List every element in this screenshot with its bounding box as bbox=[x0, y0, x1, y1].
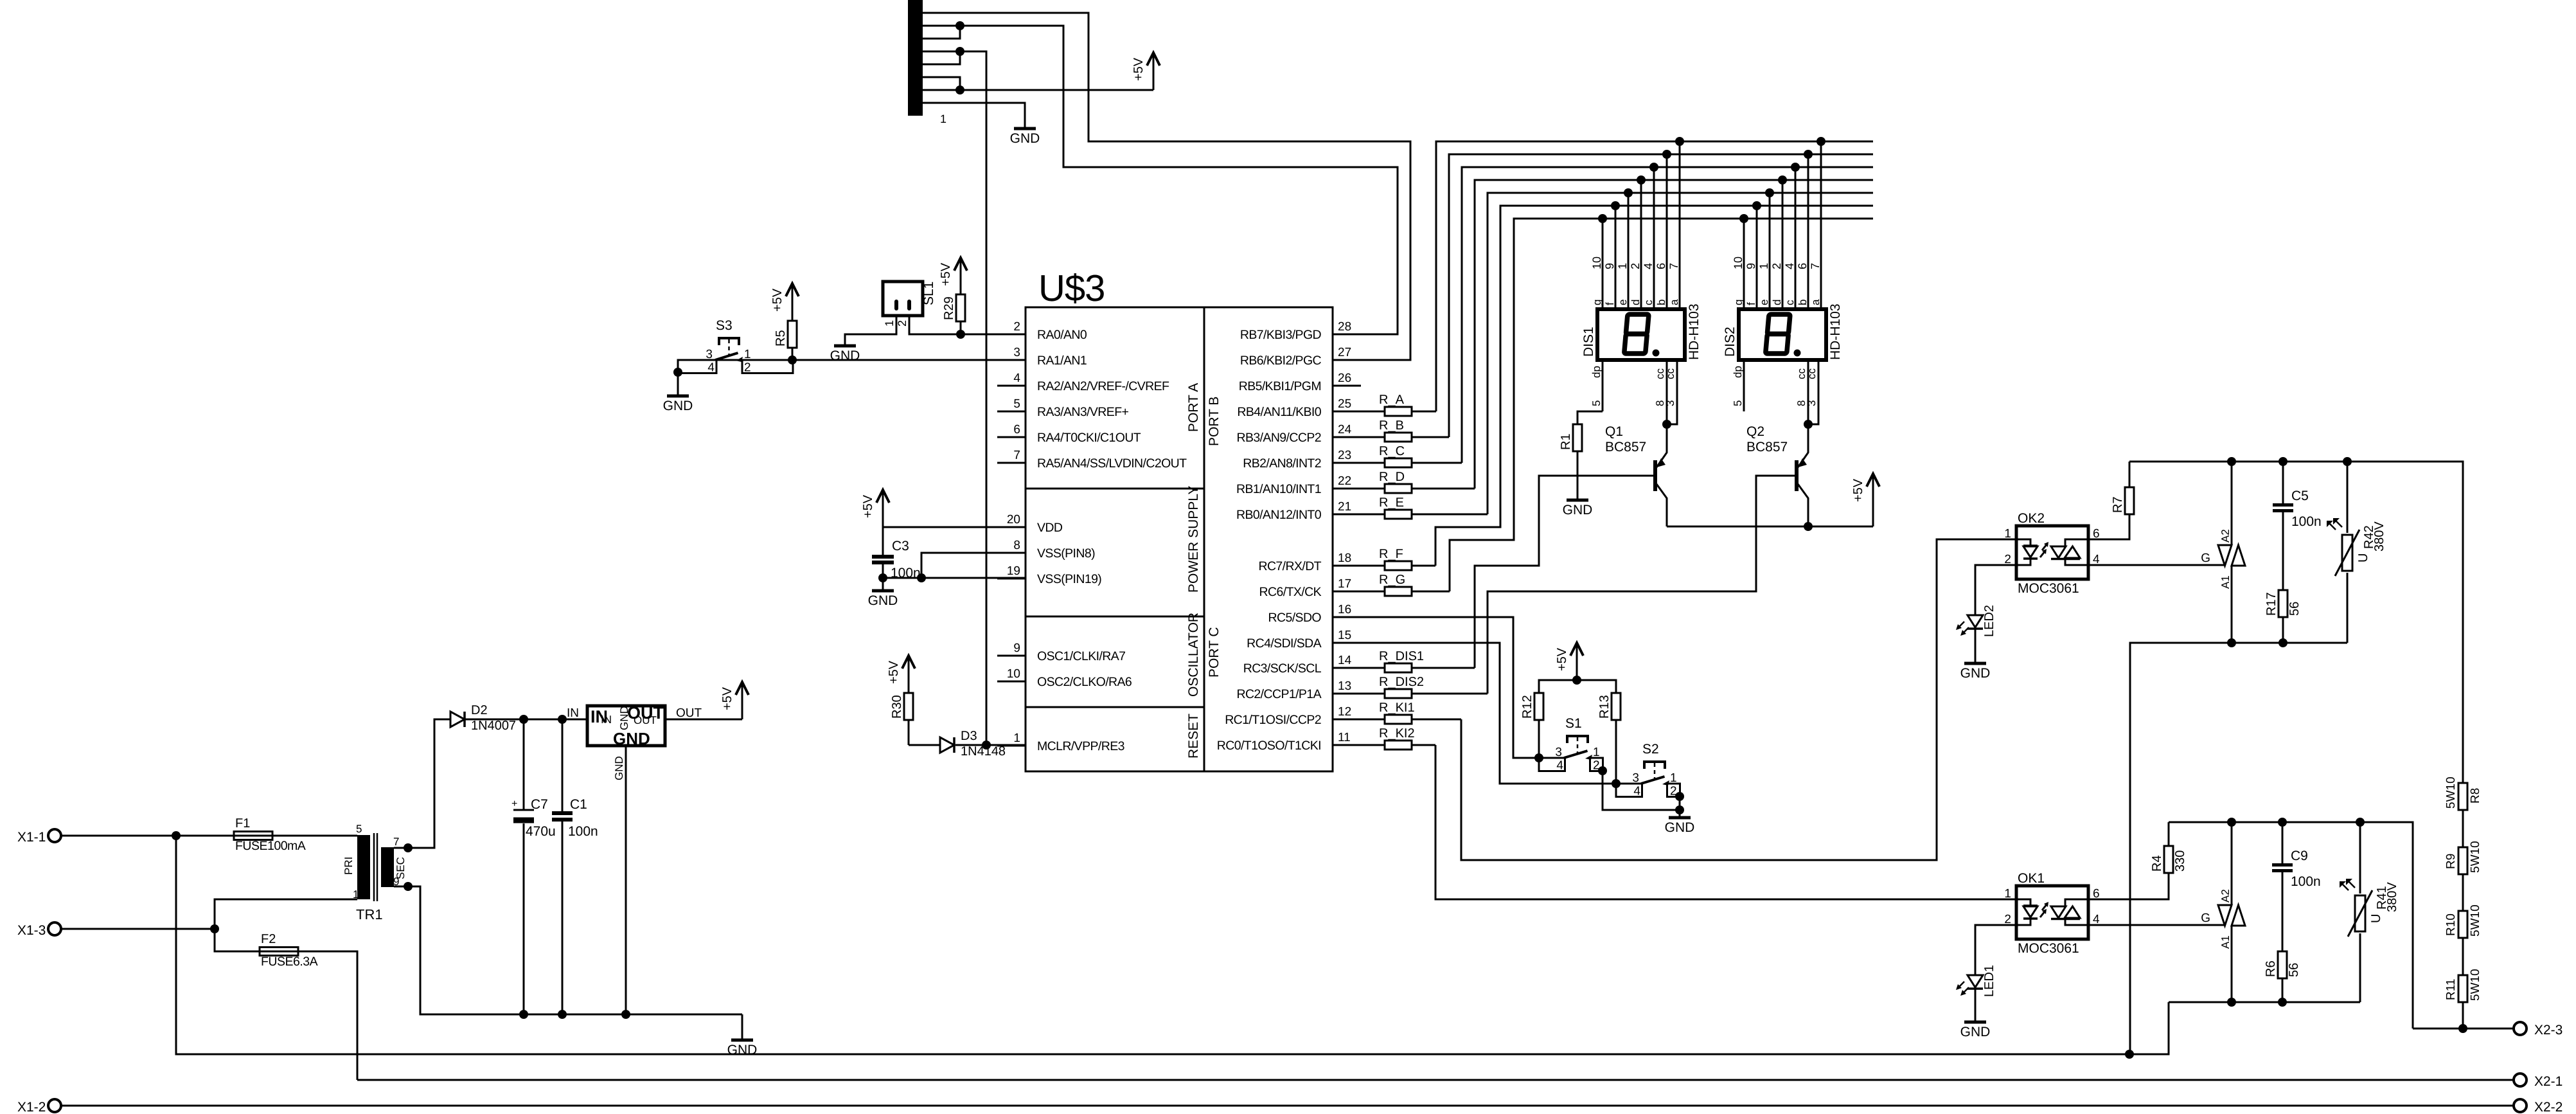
U$3 pin 10 OSC2/CLKO/RA6 bbox=[997, 681, 1026, 683]
svg-text:2: 2 bbox=[896, 320, 909, 327]
terminal X2-3 bbox=[2514, 1022, 2527, 1035]
svg-text:6: 6 bbox=[1655, 263, 1667, 269]
svg-text:+5V: +5V bbox=[1851, 478, 1865, 502]
svg-text:5: 5 bbox=[356, 823, 362, 835]
junction R29/SL1/RA0 bbox=[956, 330, 965, 339]
svg-text:100n: 100n bbox=[2291, 514, 2322, 529]
svg-text:GND: GND bbox=[613, 729, 650, 748]
wire X1-3 to junction bbox=[61, 928, 215, 930]
svg-text:SL1: SL1 bbox=[921, 282, 936, 305]
svg-text:GND: GND bbox=[1010, 131, 1040, 146]
svg-text:RA3/AN3/VREF+: RA3/AN3/VREF+ bbox=[1037, 405, 1129, 419]
wire SV1 pin4 to MCLR net bbox=[923, 51, 986, 745]
wire SV1 pin5 jog bbox=[923, 51, 960, 64]
wire S3 to ground bbox=[677, 360, 679, 396]
svg-text:OK1: OK1 bbox=[2018, 871, 2045, 886]
wire OK1 pin6 to R4 bbox=[2088, 873, 2169, 899]
U$3 pin 7 RA5/AN4/SS/LVDIN/C2OUT bbox=[997, 462, 1026, 464]
U$3 pin 13 RC2/CCP1/P1A bbox=[1333, 693, 1361, 695]
wire DIS1 cc junction bbox=[1662, 420, 1671, 429]
U$3 pin 15 RC4/SDI/SDA bbox=[1333, 642, 1361, 644]
svg-text:RC5/SDO: RC5/SDO bbox=[1268, 611, 1322, 625]
svg-text:10: 10 bbox=[1590, 256, 1603, 269]
resistor R7 bbox=[2125, 487, 2134, 514]
wire R_E riser to segment bus bbox=[1488, 193, 1873, 514]
junction +5V rail bbox=[1572, 676, 1581, 685]
wire OK2 pin2 to LED2 bbox=[1975, 565, 2016, 615]
svg-text:RA5/AN4/SS/LVDIN/C2OUT: RA5/AN4/SS/LVDIN/C2OUT bbox=[1037, 456, 1187, 471]
junction MCLR net bbox=[982, 741, 991, 750]
wire R_F riser to segment bus f bbox=[1435, 206, 1873, 566]
svg-text:f: f bbox=[1745, 302, 1757, 305]
svg-text:Q2: Q2 bbox=[1746, 424, 1764, 439]
wire X1-3 to TR1 pin1 bbox=[215, 899, 357, 929]
svg-text:R5: R5 bbox=[774, 330, 788, 346]
wire RC5 pin16 to S1 bbox=[1333, 617, 1539, 758]
svg-text:2: 2 bbox=[1013, 320, 1020, 334]
junction X1-3 bbox=[210, 924, 219, 933]
ground power section bbox=[731, 1039, 753, 1042]
junction R6 bottom bbox=[2278, 998, 2287, 1007]
svg-text:X2-1: X2-1 bbox=[2534, 1074, 2563, 1089]
U$3 pin 2 RA0/AN0 bbox=[997, 334, 1026, 336]
U$3 pin 26 RB5/KBI1/PGM bbox=[1333, 385, 1361, 387]
svg-text:LED2: LED2 bbox=[1982, 605, 1996, 637]
U$3 pin 20 VDD bbox=[997, 526, 1026, 528]
svg-text:RC6/TX/CK: RC6/TX/CK bbox=[1259, 585, 1322, 599]
svg-text:dp: dp bbox=[1732, 366, 1744, 378]
svg-text:R6: R6 bbox=[2264, 960, 2278, 977]
svg-text:d: d bbox=[1771, 300, 1783, 305]
voltage regulator IC bbox=[587, 706, 665, 746]
U$3 pin 11 RC0/T1OSO/T1CKI bbox=[1333, 744, 1361, 746]
svg-text:X2-2: X2-2 bbox=[2534, 1100, 2563, 1114]
capacitor C5 bbox=[2282, 462, 2284, 503]
resistor R_DIS1 bbox=[1333, 667, 1475, 669]
svg-text:G: G bbox=[2201, 912, 2210, 925]
junction C1 bottom bbox=[558, 1010, 567, 1019]
junction X1-1 branch bbox=[172, 831, 181, 840]
wire R8 to R9 bbox=[2462, 810, 2464, 847]
+5V symbol transistor rail bbox=[1872, 511, 1874, 526]
wire S2 pin2 down bbox=[1679, 796, 1681, 818]
U$3 pin 6 RA4/T0CKI/C1OUT bbox=[997, 436, 1026, 438]
U$3 pin 9 OSC1/CLKI/RA7 bbox=[997, 655, 1026, 657]
varistor R41 bbox=[2359, 822, 2361, 894]
svg-text:X1-3: X1-3 bbox=[17, 923, 46, 938]
wire R13 to S2 bbox=[1615, 720, 1617, 784]
svg-text:470u: 470u bbox=[526, 824, 556, 839]
junction C1 top bbox=[558, 715, 567, 724]
resistor R_F bbox=[1333, 565, 1435, 567]
wire SL1 pin2 to RA0 pin2 bbox=[909, 316, 1026, 334]
svg-text:RA4/T0CKI/C1OUT: RA4/T0CKI/C1OUT bbox=[1037, 431, 1141, 445]
junction VSS pins bbox=[917, 573, 926, 582]
wire R_A riser to segment bus bbox=[1436, 141, 1873, 411]
svg-text:RB2/AN8/INT2: RB2/AN8/INT2 bbox=[1243, 456, 1321, 471]
svg-text:R_B: R_B bbox=[1379, 418, 1404, 433]
wire DIS1 dp to R1 bbox=[1577, 411, 1603, 424]
svg-text:5W10: 5W10 bbox=[2469, 904, 2482, 937]
svg-text:4: 4 bbox=[1783, 263, 1796, 269]
junction OK2 return leg bbox=[2125, 1050, 2134, 1059]
junction dots segment bus DIS2 bbox=[1817, 137, 1825, 146]
wire TR1 sec bottom to ground rail bbox=[394, 886, 742, 1014]
svg-text:R1: R1 bbox=[1559, 433, 1573, 450]
svg-text:8: 8 bbox=[1013, 539, 1020, 552]
ground S1/S2 bbox=[1669, 816, 1691, 820]
svg-text:9: 9 bbox=[1013, 642, 1020, 655]
terminal X2-1 bbox=[2514, 1074, 2527, 1086]
svg-text:R_KI1: R_KI1 bbox=[1379, 701, 1415, 715]
+5V symbol regulator bbox=[742, 684, 743, 719]
junction S3 pin4 bbox=[673, 368, 682, 377]
wire R_D riser to segment bus bbox=[1475, 180, 1873, 489]
wire S2 pin3 stub bbox=[1616, 783, 1640, 785]
svg-text:RA2/AN2/VREF-/CVREF: RA2/AN2/VREF-/CVREF bbox=[1037, 379, 1169, 393]
svg-text:26: 26 bbox=[1338, 372, 1351, 385]
svg-text:1N4007: 1N4007 bbox=[471, 719, 516, 733]
junction TR1 sec pin9 bbox=[404, 882, 413, 891]
resistor R5 bbox=[792, 321, 794, 360]
svg-text:g: g bbox=[1732, 300, 1745, 305]
svg-text:OK2: OK2 bbox=[2018, 511, 2045, 526]
svg-text:GND: GND bbox=[618, 706, 630, 730]
svg-text:c: c bbox=[1784, 300, 1796, 305]
svg-text:1: 1 bbox=[1757, 263, 1770, 269]
svg-text:C5: C5 bbox=[2291, 489, 2309, 503]
svg-text:A2: A2 bbox=[2219, 889, 2232, 903]
svg-text:IN: IN bbox=[601, 714, 612, 726]
svg-text:A1: A1 bbox=[2219, 935, 2232, 949]
svg-text:24: 24 bbox=[1338, 423, 1352, 436]
svg-text:GND: GND bbox=[663, 399, 693, 413]
resistor R8 bbox=[2458, 783, 2467, 810]
svg-text:R7: R7 bbox=[2111, 496, 2125, 513]
wire R6 to bottom rail bbox=[2282, 978, 2284, 1002]
resistor R_KI2 bbox=[1333, 744, 1435, 746]
junction S1 common bbox=[1534, 753, 1543, 762]
wire DIS2 cc junction bbox=[1804, 420, 1813, 429]
svg-text:RB0/AN12/INT0: RB0/AN12/INT0 bbox=[1236, 508, 1322, 522]
wire TR1 sec top to D2 bbox=[394, 719, 450, 848]
svg-text:U: U bbox=[2356, 553, 2370, 562]
svg-text:a: a bbox=[1668, 299, 1680, 305]
switch S3 bbox=[678, 360, 716, 373]
ground R1 bbox=[1567, 499, 1588, 502]
resistor R4 bbox=[2164, 846, 2173, 873]
+5V symbol pullup rail bbox=[1576, 645, 1578, 680]
U$3 pin 25 RB4/AN11/KBI0 bbox=[1333, 411, 1361, 413]
svg-text:b: b bbox=[1655, 300, 1667, 305]
svg-text:1: 1 bbox=[1616, 263, 1629, 269]
connector SV1 (programming header bar) bbox=[908, 0, 923, 116]
svg-text:2: 2 bbox=[744, 361, 751, 375]
svg-text:R4: R4 bbox=[2150, 855, 2164, 872]
LED LED2 bbox=[1968, 615, 1983, 627]
svg-text:14: 14 bbox=[1338, 654, 1352, 667]
U$3 pin 4 RA2/AN2/VREF-/CVREF bbox=[997, 385, 1026, 387]
resistor R_E bbox=[1333, 514, 1488, 516]
switch S1 bbox=[1539, 758, 1565, 771]
svg-text:F2: F2 bbox=[261, 932, 276, 946]
svg-text:HD-H103: HD-H103 bbox=[1687, 303, 1701, 360]
svg-text:dp: dp bbox=[1590, 366, 1603, 378]
svg-text:7: 7 bbox=[393, 836, 399, 848]
junction S1 pin2 bbox=[1598, 766, 1607, 775]
wire R_C riser to segment bus bbox=[1462, 167, 1873, 463]
svg-text:GND: GND bbox=[1960, 1025, 1991, 1039]
wire X1-3 to F2 bbox=[215, 929, 260, 951]
wire SV1 pin3 jog bbox=[923, 26, 960, 39]
svg-text:MCLR/VPP/RE3: MCLR/VPP/RE3 bbox=[1037, 739, 1124, 753]
svg-text:TR1: TR1 bbox=[356, 906, 383, 922]
svg-text:21: 21 bbox=[1338, 500, 1351, 514]
svg-text:RESET: RESET bbox=[1186, 714, 1201, 759]
svg-text:5: 5 bbox=[1732, 400, 1744, 406]
U$3 pin 12 RC1/T1OSI/CCP2 bbox=[1333, 719, 1361, 721]
triac T1 bbox=[2231, 822, 2233, 905]
svg-text:4: 4 bbox=[707, 361, 715, 375]
resistor R_D bbox=[1333, 488, 1475, 490]
wire R_G riser to segment bus g bbox=[1450, 219, 1873, 591]
svg-text:380V: 380V bbox=[2372, 521, 2386, 552]
junction C7 bottom bbox=[519, 1010, 528, 1019]
ground S3 bbox=[667, 395, 689, 398]
svg-text:PORT B: PORT B bbox=[1207, 397, 1221, 446]
wire LED1 to ground bbox=[1975, 989, 1976, 1022]
svg-text:56: 56 bbox=[2287, 963, 2301, 977]
terminal X1-3 bbox=[48, 922, 61, 935]
svg-text:1: 1 bbox=[940, 112, 946, 125]
junction S2 pin2 bbox=[1675, 792, 1684, 801]
wire VSS pin8 jog bbox=[921, 553, 1026, 578]
wire SV1 pin6 jog bbox=[923, 77, 960, 90]
resistor R_B bbox=[1333, 436, 1449, 438]
+5V symbol VDD bbox=[882, 492, 884, 527]
svg-text:+5V: +5V bbox=[887, 660, 901, 684]
svg-text:BC857: BC857 bbox=[1605, 440, 1646, 454]
wire X1-1 to F1 bbox=[61, 835, 234, 837]
svg-text:OSC1/CLKI/RA7: OSC1/CLKI/RA7 bbox=[1037, 649, 1125, 663]
svg-text:OSC2/CLKO/RA6: OSC2/CLKO/RA6 bbox=[1037, 675, 1132, 689]
svg-text:VSS(PIN19): VSS(PIN19) bbox=[1037, 572, 1101, 586]
wire R11 to X2-3 bbox=[2462, 1002, 2464, 1029]
svg-text:4: 4 bbox=[1556, 759, 1563, 773]
svg-text:56: 56 bbox=[2287, 602, 2302, 616]
wire S1 pin3 stub bbox=[1539, 757, 1563, 759]
wire R_B riser to segment bus bbox=[1449, 154, 1873, 437]
svg-text:3: 3 bbox=[1806, 400, 1818, 406]
svg-text:POWER SUPPLY: POWER SUPPLY bbox=[1186, 486, 1201, 593]
svg-text:7: 7 bbox=[1809, 263, 1822, 269]
LED LED1 bbox=[1968, 975, 1983, 987]
svg-text:1: 1 bbox=[1013, 732, 1020, 745]
svg-text:1: 1 bbox=[353, 888, 359, 901]
U$3 pin 16 RC5/SDO bbox=[1333, 616, 1361, 618]
junction triac T1 bottom bbox=[2227, 998, 2236, 1007]
svg-text:S3: S3 bbox=[716, 318, 733, 333]
svg-text:R_DIS2: R_DIS2 bbox=[1379, 675, 1424, 689]
svg-text:330: 330 bbox=[2173, 850, 2187, 872]
wire SV1 pin2 to U$3 pin28 net bbox=[923, 26, 1398, 334]
svg-text:3: 3 bbox=[706, 348, 713, 361]
wire X1-1 branch to OK1 snubber rail bbox=[176, 836, 2169, 1054]
svg-text:g: g bbox=[1591, 300, 1603, 305]
wire OK1 snubber top rail bbox=[2169, 822, 2413, 1029]
svg-text:RC0/T1OSO/T1CKI: RC0/T1OSO/T1CKI bbox=[1217, 739, 1321, 753]
junction R41 top bbox=[2356, 818, 2365, 827]
wire OK2 pin6 to R7 bbox=[2088, 462, 2129, 539]
junction R42 top bbox=[2343, 457, 2352, 466]
ground LED1 bbox=[1964, 1021, 1986, 1024]
svg-text:RB7/KBI3/PGD: RB7/KBI3/PGD bbox=[1240, 328, 1322, 342]
wire S1 pin2 to ground net bbox=[1603, 771, 1680, 810]
svg-text:15: 15 bbox=[1338, 629, 1351, 642]
svg-text:100n: 100n bbox=[568, 824, 598, 839]
svg-text:A1: A1 bbox=[2219, 575, 2232, 589]
capacitor C7 bbox=[523, 719, 525, 809]
svg-text:10: 10 bbox=[1007, 667, 1020, 681]
junction dots segment bus DIS1 bbox=[1675, 137, 1684, 146]
svg-text:FUSE6.3A: FUSE6.3A bbox=[261, 955, 318, 969]
svg-text:+5V: +5V bbox=[861, 494, 875, 518]
+5V rail S1/S2 pullups bbox=[1539, 680, 1616, 720]
svg-text:RC1/T1OSI/CCP2: RC1/T1OSI/CCP2 bbox=[1225, 713, 1321, 727]
svg-text:PRI: PRI bbox=[342, 857, 355, 875]
svg-text:10: 10 bbox=[1732, 256, 1745, 269]
svg-text:+5V: +5V bbox=[770, 288, 785, 312]
svg-text:OUT: OUT bbox=[676, 706, 702, 720]
svg-text:6: 6 bbox=[1796, 263, 1809, 269]
svg-text:380V: 380V bbox=[2385, 882, 2399, 912]
svg-text:R30: R30 bbox=[890, 695, 904, 719]
wire R_KI1 to OK2 pin1 bbox=[1461, 539, 2016, 860]
junction triac T1 top bbox=[2227, 818, 2236, 827]
U$3 pin 1 MCLR/VPP/RE3 bbox=[997, 745, 1026, 747]
svg-text:+5V: +5V bbox=[720, 687, 734, 710]
svg-text:R8: R8 bbox=[2469, 788, 2482, 804]
+5V symbol R30 bbox=[908, 658, 910, 693]
svg-text:RC4/SDI/SDA: RC4/SDI/SDA bbox=[1247, 636, 1321, 651]
svg-text:MOC3061: MOC3061 bbox=[2018, 581, 2079, 596]
wire D2 to regulator IN bbox=[465, 719, 587, 721]
wire R4 to top rail bbox=[2168, 822, 2170, 847]
U$3 pin 22 RB1/AN10/INT1 bbox=[1333, 488, 1361, 490]
svg-text:1: 1 bbox=[1593, 746, 1600, 759]
junction TR1 sec pin7 bbox=[404, 843, 413, 852]
transistor Q1 BC857 bbox=[1653, 460, 1657, 491]
wire OK2 snubber top rail bbox=[2129, 462, 2463, 784]
U$3 pin 3 RA1/AN1 bbox=[997, 359, 1026, 361]
U$3 pin 5 RA3/AN3/VREF+ bbox=[997, 411, 1026, 413]
svg-text:27: 27 bbox=[1338, 346, 1351, 359]
svg-text:R12: R12 bbox=[1520, 695, 1534, 719]
svg-text:e: e bbox=[1617, 300, 1629, 305]
svg-text:1: 1 bbox=[2004, 887, 2011, 901]
wire Q1/Q2 emitter rail to +5V bbox=[1667, 526, 1873, 528]
svg-text:18: 18 bbox=[1338, 552, 1351, 565]
svg-text:X2-3: X2-3 bbox=[2534, 1023, 2563, 1038]
svg-text:1: 1 bbox=[883, 320, 896, 327]
svg-text:R_F: R_F bbox=[1379, 547, 1403, 561]
connector SL1 bbox=[883, 282, 923, 316]
wire VDD net bbox=[883, 526, 1026, 528]
svg-text:5: 5 bbox=[1013, 397, 1020, 411]
junction C5 top bbox=[2278, 457, 2287, 466]
svg-text:RB6/KBI2/PGC: RB6/KBI2/PGC bbox=[1240, 354, 1322, 368]
svg-text:F1: F1 bbox=[235, 816, 250, 831]
ground LED2 bbox=[1964, 662, 1986, 665]
switch S2 bbox=[1616, 784, 1642, 797]
svg-text:OUT: OUT bbox=[634, 714, 657, 726]
svg-text:RC7/RX/DT: RC7/RX/DT bbox=[1258, 559, 1321, 573]
svg-text:R_A: R_A bbox=[1379, 393, 1405, 407]
wire ground rail to ground symbol bbox=[742, 1014, 743, 1040]
svg-text:19: 19 bbox=[1007, 564, 1020, 578]
svg-text:R_DIS1: R_DIS1 bbox=[1379, 649, 1424, 663]
junction C3 bottom bbox=[878, 573, 887, 582]
svg-text:RB3/AN9/CCP2: RB3/AN9/CCP2 bbox=[1236, 431, 1321, 445]
svg-text:f: f bbox=[1604, 302, 1616, 305]
svg-text:C9: C9 bbox=[2291, 849, 2308, 863]
svg-text:RB1/AN10/INT1: RB1/AN10/INT1 bbox=[1236, 482, 1321, 496]
svg-text:MOC3061: MOC3061 bbox=[2018, 941, 2079, 956]
svg-text:R_KI2: R_KI2 bbox=[1379, 726, 1415, 741]
wire X1-2 to X2-2 bbox=[61, 1105, 2514, 1107]
wire R12 to S1 bbox=[1538, 720, 1540, 758]
svg-text:U$3: U$3 bbox=[1038, 267, 1105, 309]
junction R17 bottom bbox=[2278, 638, 2287, 647]
svg-text:RC2/CCP1/P1A: RC2/CCP1/P1A bbox=[1236, 687, 1321, 701]
wire regulator OUT to +5V bbox=[665, 719, 742, 721]
svg-text:RC3/SCK/SCL: RC3/SCK/SCL bbox=[1243, 661, 1322, 676]
svg-text:b: b bbox=[1797, 300, 1809, 305]
svg-text:DIS1: DIS1 bbox=[1581, 327, 1596, 357]
fuse F1 bbox=[234, 832, 272, 840]
wire SV1 pin1 to U$3 pin27 net bbox=[923, 13, 1410, 360]
svg-text:1: 1 bbox=[1670, 771, 1677, 785]
svg-text:4: 4 bbox=[1013, 372, 1020, 385]
wire X2-1 line bbox=[357, 1079, 2514, 1081]
svg-text:GND: GND bbox=[830, 348, 860, 363]
svg-text:6: 6 bbox=[1013, 423, 1020, 436]
terminal X2-2 bbox=[2514, 1099, 2527, 1112]
junction regulator GND bbox=[621, 1010, 630, 1019]
resistor R_DIS2 bbox=[1333, 693, 1488, 695]
wire regulator GND pin bbox=[625, 746, 627, 1014]
svg-text:VSS(PIN8): VSS(PIN8) bbox=[1037, 546, 1095, 561]
svg-text:X1-1: X1-1 bbox=[17, 830, 46, 845]
wire C3 to ground bbox=[882, 578, 884, 591]
svg-text:3: 3 bbox=[1013, 346, 1020, 359]
+5V symbol R5 bbox=[792, 285, 794, 321]
svg-text:GND: GND bbox=[613, 756, 625, 780]
svg-text:X1-2: X1-2 bbox=[17, 1100, 46, 1114]
svg-text:BC857: BC857 bbox=[1746, 440, 1788, 454]
svg-text:RB5/KBI1/PGM: RB5/KBI1/PGM bbox=[1239, 379, 1321, 393]
svg-text:+5V: +5V bbox=[1555, 647, 1569, 671]
wire RC4 pin15 to S2 bbox=[1333, 643, 1616, 784]
svg-text:SEC: SEC bbox=[395, 857, 407, 879]
wire X2-3 line bbox=[2413, 1028, 2514, 1030]
wire VSS pin19 net bbox=[883, 577, 1026, 579]
U$3 pin 23 RB2/AN8/INT2 bbox=[1333, 462, 1361, 464]
wire R9 to R10 bbox=[2462, 874, 2464, 911]
svg-text:GND: GND bbox=[727, 1043, 758, 1057]
svg-text:c: c bbox=[1642, 300, 1655, 305]
resistor R_A bbox=[1333, 411, 1436, 413]
